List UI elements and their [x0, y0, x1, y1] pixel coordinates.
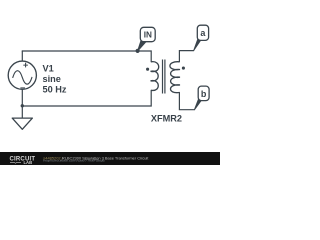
svg-text:b: b	[201, 89, 207, 99]
svg-text:sine: sine	[43, 74, 61, 84]
svg-text:XFMR2: XFMR2	[151, 114, 182, 124]
svg-text:V1: V1	[43, 63, 54, 73]
svg-text:LAB: LAB	[24, 160, 33, 165]
svg-text:IN: IN	[144, 31, 152, 40]
svg-text:http//circuitlab.com/cas/77kaF: http//circuitlab.com/cas/77kaF5bg6	[43, 159, 105, 162]
svg-text:50 Hz: 50 Hz	[43, 85, 67, 95]
